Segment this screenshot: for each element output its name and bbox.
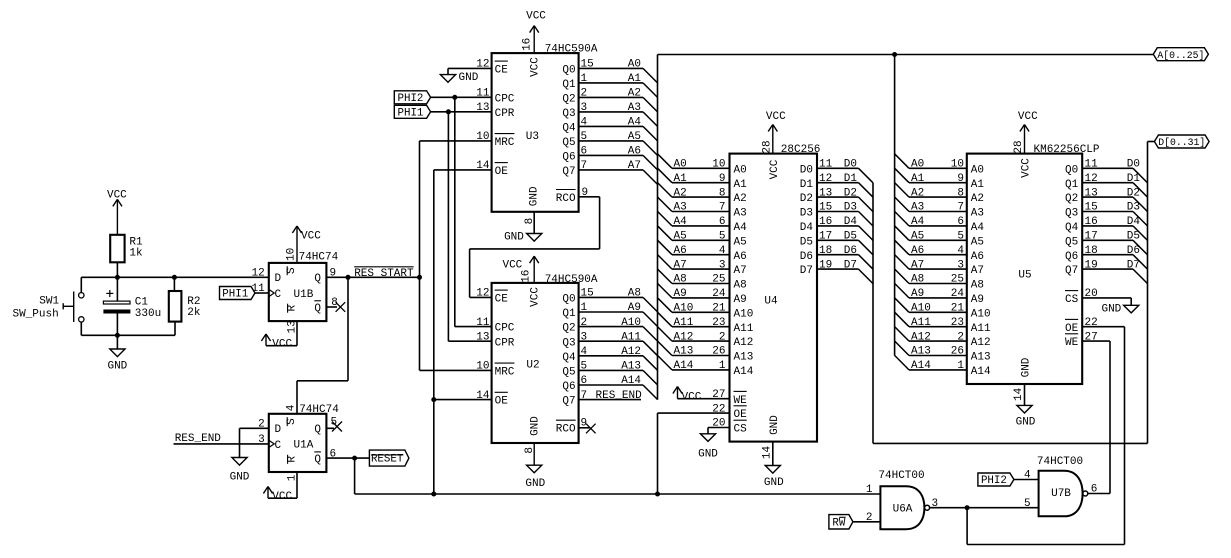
svg-text:Q4: Q4 bbox=[1065, 222, 1079, 234]
svg-text:A9: A9 bbox=[628, 302, 641, 314]
svg-text:A2: A2 bbox=[674, 187, 687, 199]
svg-text:17: 17 bbox=[1085, 231, 1098, 243]
svg-text:A7: A7 bbox=[734, 265, 747, 277]
svg-text:Q2: Q2 bbox=[1065, 193, 1078, 205]
svg-text:17: 17 bbox=[819, 231, 832, 243]
svg-text:A2: A2 bbox=[628, 88, 641, 100]
svg-text:16: 16 bbox=[521, 270, 533, 283]
svg-text:11: 11 bbox=[476, 88, 490, 100]
svg-text:4: 4 bbox=[1024, 470, 1031, 482]
svg-text:GND: GND bbox=[698, 449, 718, 461]
svg-text:A8: A8 bbox=[911, 274, 924, 286]
svg-text:Q5: Q5 bbox=[562, 137, 575, 149]
svg-text:VCC: VCC bbox=[502, 260, 522, 272]
svg-text:U3: U3 bbox=[526, 131, 539, 143]
svg-text:2: 2 bbox=[719, 331, 726, 343]
svg-text:A9: A9 bbox=[971, 294, 984, 306]
svg-text:U4: U4 bbox=[764, 295, 778, 307]
svg-text:GND: GND bbox=[230, 471, 250, 483]
svg-text:RW: RW bbox=[832, 517, 845, 529]
svg-text:A8: A8 bbox=[734, 280, 747, 292]
svg-text:GND: GND bbox=[525, 478, 545, 490]
svg-text:4: 4 bbox=[957, 245, 964, 257]
svg-text:A3: A3 bbox=[734, 208, 747, 220]
svg-text:A3: A3 bbox=[628, 102, 641, 114]
svg-text:D0: D0 bbox=[844, 159, 857, 171]
svg-text:VCC: VCC bbox=[530, 57, 542, 77]
svg-text:27: 27 bbox=[712, 389, 725, 401]
svg-text:11: 11 bbox=[1085, 159, 1099, 171]
svg-text:26: 26 bbox=[712, 346, 725, 358]
svg-text:6: 6 bbox=[581, 375, 588, 387]
svg-text:A12: A12 bbox=[674, 331, 694, 343]
svg-text:10: 10 bbox=[286, 248, 298, 261]
svg-text:A13: A13 bbox=[971, 352, 991, 364]
svg-text:D0: D0 bbox=[1127, 159, 1140, 171]
svg-text:A5: A5 bbox=[971, 236, 984, 248]
svg-text:4: 4 bbox=[581, 117, 588, 129]
svg-text:10: 10 bbox=[951, 159, 964, 171]
svg-text:13: 13 bbox=[1085, 187, 1098, 199]
svg-text:7: 7 bbox=[719, 202, 726, 214]
svg-text:9: 9 bbox=[582, 187, 589, 199]
svg-text:RCO: RCO bbox=[556, 193, 576, 205]
svg-text:A14: A14 bbox=[971, 366, 991, 378]
svg-text:9: 9 bbox=[330, 268, 337, 280]
svg-text:13: 13 bbox=[476, 331, 489, 343]
svg-text:A9: A9 bbox=[911, 288, 924, 300]
svg-text:RES_START: RES_START bbox=[354, 268, 414, 280]
svg-text:RES_END: RES_END bbox=[175, 433, 222, 445]
svg-text:19: 19 bbox=[819, 259, 832, 271]
svg-text:8: 8 bbox=[957, 187, 964, 199]
svg-text:CPR: CPR bbox=[495, 108, 515, 120]
svg-text:A4: A4 bbox=[674, 216, 688, 228]
svg-text:GND: GND bbox=[1016, 417, 1036, 429]
svg-text:A3: A3 bbox=[911, 202, 924, 214]
svg-text:28C256: 28C256 bbox=[781, 144, 821, 156]
svg-text:C: C bbox=[275, 289, 282, 301]
svg-text:A14: A14 bbox=[674, 360, 694, 372]
svg-text:10: 10 bbox=[476, 131, 489, 143]
svg-text:20: 20 bbox=[712, 418, 725, 430]
svg-text:A11: A11 bbox=[674, 317, 694, 329]
svg-text:Q0: Q0 bbox=[1065, 164, 1078, 176]
svg-text:A4: A4 bbox=[734, 222, 748, 234]
svg-text:74HC74: 74HC74 bbox=[299, 252, 339, 264]
svg-text:1: 1 bbox=[957, 360, 964, 372]
svg-text:CS: CS bbox=[1065, 294, 1079, 306]
svg-text:D4: D4 bbox=[844, 216, 858, 228]
svg-text:C: C bbox=[275, 440, 282, 452]
svg-text:18: 18 bbox=[1085, 245, 1098, 257]
svg-text:A14: A14 bbox=[911, 360, 931, 372]
svg-text:10: 10 bbox=[712, 159, 725, 171]
svg-text:D5: D5 bbox=[844, 231, 857, 243]
svg-text:2: 2 bbox=[957, 331, 964, 343]
svg-text:VCC: VCC bbox=[272, 338, 292, 350]
svg-text:PHI2: PHI2 bbox=[397, 93, 423, 105]
svg-text:A14: A14 bbox=[734, 366, 754, 378]
svg-text:2: 2 bbox=[581, 88, 588, 100]
svg-text:D7: D7 bbox=[1127, 259, 1140, 271]
svg-text:D: D bbox=[275, 273, 282, 285]
svg-text:2: 2 bbox=[866, 512, 873, 524]
svg-text:23: 23 bbox=[712, 317, 725, 329]
svg-text:U7B: U7B bbox=[1051, 488, 1071, 500]
svg-text:19: 19 bbox=[1085, 259, 1098, 271]
svg-text:15: 15 bbox=[1085, 202, 1098, 214]
svg-text:D5: D5 bbox=[800, 236, 813, 248]
svg-text:RES_END: RES_END bbox=[596, 390, 643, 402]
svg-text:12: 12 bbox=[476, 288, 489, 300]
svg-text:330u: 330u bbox=[135, 308, 161, 320]
svg-text:A4: A4 bbox=[628, 117, 642, 129]
svg-text:GND: GND bbox=[1101, 303, 1121, 315]
svg-text:SW1: SW1 bbox=[39, 296, 59, 308]
svg-text:VCC: VCC bbox=[1018, 111, 1038, 123]
svg-text:A1: A1 bbox=[628, 73, 642, 85]
svg-text:A5: A5 bbox=[628, 131, 641, 143]
svg-text:GND: GND bbox=[1021, 357, 1033, 377]
svg-text:3: 3 bbox=[581, 331, 588, 343]
svg-text:D6: D6 bbox=[800, 251, 813, 263]
svg-text:VCC: VCC bbox=[682, 391, 702, 403]
svg-text:21: 21 bbox=[951, 303, 965, 315]
svg-text:14: 14 bbox=[476, 390, 490, 402]
svg-text:1: 1 bbox=[719, 360, 726, 372]
svg-text:Q: Q bbox=[314, 273, 321, 285]
svg-text:D1: D1 bbox=[844, 173, 858, 185]
svg-text:A7: A7 bbox=[911, 259, 924, 271]
svg-text:1: 1 bbox=[581, 73, 588, 85]
svg-text:PHI1: PHI1 bbox=[397, 107, 423, 119]
svg-text:13: 13 bbox=[476, 102, 489, 114]
svg-text:A8: A8 bbox=[674, 274, 687, 286]
svg-text:3: 3 bbox=[932, 498, 939, 510]
svg-text:16: 16 bbox=[819, 216, 832, 228]
svg-text:D3: D3 bbox=[844, 202, 857, 214]
svg-text:11: 11 bbox=[819, 159, 833, 171]
svg-text:3: 3 bbox=[957, 259, 964, 271]
svg-text:MRC: MRC bbox=[495, 137, 515, 149]
svg-text:15: 15 bbox=[819, 202, 832, 214]
svg-text:22: 22 bbox=[712, 403, 725, 415]
svg-text:Q0: Q0 bbox=[562, 294, 575, 306]
svg-text:VCC: VCC bbox=[526, 10, 546, 22]
svg-text:10: 10 bbox=[476, 361, 489, 373]
svg-text:A8: A8 bbox=[628, 288, 641, 300]
svg-text:VCC: VCC bbox=[272, 491, 292, 503]
svg-text:Q: Q bbox=[314, 424, 321, 436]
svg-text:20: 20 bbox=[1085, 288, 1098, 300]
svg-text:A6: A6 bbox=[971, 251, 984, 263]
svg-text:A8: A8 bbox=[971, 280, 984, 292]
svg-text:GND: GND bbox=[459, 72, 479, 84]
svg-text:Q5: Q5 bbox=[1065, 236, 1078, 248]
svg-text:7: 7 bbox=[957, 202, 964, 214]
svg-text:8: 8 bbox=[524, 218, 536, 225]
svg-text:VCC: VCC bbox=[769, 159, 781, 179]
svg-text:D2: D2 bbox=[844, 187, 857, 199]
svg-text:6: 6 bbox=[581, 146, 588, 158]
svg-text:RCO: RCO bbox=[556, 424, 576, 436]
svg-text:CPC: CPC bbox=[495, 323, 515, 335]
svg-text:A11: A11 bbox=[734, 323, 754, 335]
svg-text:D4: D4 bbox=[1127, 216, 1141, 228]
svg-text:1: 1 bbox=[866, 484, 873, 496]
svg-text:13: 13 bbox=[287, 320, 299, 333]
svg-text:D6: D6 bbox=[1127, 245, 1140, 257]
svg-text:A6: A6 bbox=[628, 146, 641, 158]
svg-text:28: 28 bbox=[762, 140, 774, 153]
svg-text:A0: A0 bbox=[911, 159, 924, 171]
svg-text:VCC: VCC bbox=[1021, 158, 1033, 178]
svg-text:3: 3 bbox=[581, 102, 588, 114]
svg-text:D1: D1 bbox=[800, 179, 814, 191]
svg-text:2k: 2k bbox=[187, 307, 201, 319]
svg-text:A2: A2 bbox=[911, 187, 924, 199]
svg-text:7: 7 bbox=[581, 390, 588, 402]
svg-text:A13: A13 bbox=[734, 352, 754, 364]
svg-text:A6: A6 bbox=[911, 245, 924, 257]
svg-text:A0: A0 bbox=[674, 159, 687, 171]
svg-text:Q6: Q6 bbox=[562, 152, 575, 164]
svg-text:74HC590A: 74HC590A bbox=[545, 274, 598, 286]
svg-text:A9: A9 bbox=[734, 294, 747, 306]
svg-text:U5: U5 bbox=[1018, 270, 1031, 282]
svg-text:Q0: Q0 bbox=[562, 65, 575, 77]
svg-text:WE: WE bbox=[734, 395, 748, 407]
svg-text:A13: A13 bbox=[674, 346, 694, 358]
svg-text:OE: OE bbox=[495, 166, 509, 178]
svg-text:D4: D4 bbox=[800, 222, 814, 234]
svg-text:7: 7 bbox=[581, 160, 588, 172]
svg-text:12: 12 bbox=[251, 268, 264, 280]
svg-text:VCC: VCC bbox=[530, 287, 542, 307]
svg-text:14: 14 bbox=[476, 160, 490, 172]
svg-text:5: 5 bbox=[1024, 498, 1031, 510]
svg-text:16: 16 bbox=[522, 38, 534, 51]
svg-text:GND: GND bbox=[504, 231, 524, 243]
svg-text:WE: WE bbox=[1065, 337, 1079, 349]
svg-text:27: 27 bbox=[1085, 331, 1098, 343]
svg-text:A10: A10 bbox=[911, 303, 931, 315]
svg-text:4: 4 bbox=[719, 245, 726, 257]
svg-text:OE: OE bbox=[495, 396, 509, 408]
svg-text:15: 15 bbox=[581, 59, 594, 71]
svg-text:GND: GND bbox=[107, 360, 127, 372]
svg-text:28: 28 bbox=[1013, 140, 1025, 153]
svg-text:A6: A6 bbox=[734, 251, 747, 263]
svg-text:Q7: Q7 bbox=[1065, 265, 1078, 277]
svg-text:Q5: Q5 bbox=[562, 367, 575, 379]
svg-text:PHI2: PHI2 bbox=[981, 475, 1007, 487]
svg-text:A6: A6 bbox=[674, 245, 687, 257]
svg-text:2: 2 bbox=[581, 317, 588, 329]
svg-text:25: 25 bbox=[951, 274, 964, 286]
svg-text:22: 22 bbox=[1085, 317, 1098, 329]
svg-text:U1B: U1B bbox=[294, 289, 314, 301]
svg-text:6: 6 bbox=[330, 448, 337, 460]
svg-text:D[0..31]: D[0..31] bbox=[1158, 137, 1205, 148]
svg-text:4: 4 bbox=[285, 404, 297, 411]
svg-text:A1: A1 bbox=[734, 179, 748, 191]
svg-text:PHI1: PHI1 bbox=[222, 289, 248, 301]
svg-text:D5: D5 bbox=[1127, 231, 1140, 243]
svg-text:A0: A0 bbox=[971, 164, 984, 176]
svg-text:A3: A3 bbox=[971, 208, 984, 220]
svg-text:1: 1 bbox=[287, 474, 299, 481]
svg-text:SW_Push: SW_Push bbox=[12, 309, 58, 321]
svg-text:D1: D1 bbox=[1127, 173, 1141, 185]
svg-text:D7: D7 bbox=[800, 265, 813, 277]
svg-text:D0: D0 bbox=[800, 164, 813, 176]
svg-text:3: 3 bbox=[258, 434, 265, 446]
svg-text:4: 4 bbox=[581, 346, 588, 358]
svg-text:D2: D2 bbox=[800, 193, 813, 205]
svg-text:A2: A2 bbox=[971, 193, 984, 205]
svg-text:8: 8 bbox=[524, 447, 536, 454]
svg-text:Q4: Q4 bbox=[562, 352, 576, 364]
svg-text:A9: A9 bbox=[674, 288, 687, 300]
svg-text:A5: A5 bbox=[911, 231, 924, 243]
svg-text:Q: Q bbox=[314, 303, 321, 315]
svg-text:24: 24 bbox=[951, 288, 965, 300]
svg-text:Q2: Q2 bbox=[562, 94, 575, 106]
svg-text:RESET: RESET bbox=[371, 454, 404, 466]
svg-text:A12: A12 bbox=[971, 337, 991, 349]
svg-text:D7: D7 bbox=[844, 259, 857, 271]
svg-text:CPR: CPR bbox=[495, 337, 515, 349]
svg-text:12: 12 bbox=[476, 59, 489, 71]
svg-text:GND: GND bbox=[529, 186, 541, 206]
svg-text:A10: A10 bbox=[734, 308, 754, 320]
svg-text:3: 3 bbox=[719, 259, 726, 271]
svg-text:1: 1 bbox=[581, 302, 588, 314]
svg-text:A3: A3 bbox=[674, 202, 687, 214]
svg-text:5: 5 bbox=[581, 361, 588, 373]
svg-text:24: 24 bbox=[712, 288, 726, 300]
svg-text:U6A: U6A bbox=[893, 504, 913, 516]
svg-text:74HCT00: 74HCT00 bbox=[878, 470, 924, 482]
svg-text:GND: GND bbox=[764, 477, 784, 489]
svg-text:VCC: VCC bbox=[107, 190, 127, 202]
svg-text:Q6: Q6 bbox=[1065, 251, 1078, 263]
svg-text:5: 5 bbox=[581, 131, 588, 143]
svg-text:MRC: MRC bbox=[495, 367, 515, 379]
svg-text:A10: A10 bbox=[674, 303, 694, 315]
svg-text:Q1: Q1 bbox=[1065, 179, 1079, 191]
svg-text:5: 5 bbox=[719, 231, 726, 243]
svg-text:6: 6 bbox=[957, 216, 964, 228]
svg-text:Q3: Q3 bbox=[562, 108, 575, 120]
svg-text:A2: A2 bbox=[734, 193, 747, 205]
svg-text:A0: A0 bbox=[734, 164, 747, 176]
svg-text:A10: A10 bbox=[621, 317, 641, 329]
svg-text:9: 9 bbox=[957, 173, 964, 185]
svg-text:A11: A11 bbox=[971, 323, 991, 335]
svg-text:25: 25 bbox=[712, 274, 725, 286]
svg-text:GND: GND bbox=[530, 416, 542, 436]
svg-text:14: 14 bbox=[1013, 387, 1025, 401]
svg-text:6: 6 bbox=[1091, 484, 1098, 496]
svg-text:Q3: Q3 bbox=[562, 337, 575, 349]
svg-text:2: 2 bbox=[258, 419, 265, 431]
svg-text:12: 12 bbox=[1085, 173, 1098, 185]
svg-text:A4: A4 bbox=[911, 216, 925, 228]
svg-text:21: 21 bbox=[712, 303, 726, 315]
svg-text:CE: CE bbox=[495, 294, 509, 306]
svg-text:Q7: Q7 bbox=[562, 396, 575, 408]
svg-text:D3: D3 bbox=[1127, 202, 1140, 214]
svg-text:9: 9 bbox=[719, 173, 726, 185]
svg-text:D2: D2 bbox=[1127, 187, 1140, 199]
svg-text:Q4: Q4 bbox=[562, 123, 576, 135]
svg-text:12: 12 bbox=[819, 173, 832, 185]
svg-text:A14: A14 bbox=[621, 375, 641, 387]
svg-text:A[0..25]: A[0..25] bbox=[1157, 50, 1204, 61]
svg-text:R2: R2 bbox=[187, 296, 200, 308]
svg-text:CS: CS bbox=[734, 424, 748, 436]
svg-text:CPC: CPC bbox=[495, 94, 515, 106]
svg-text:Q1: Q1 bbox=[562, 79, 576, 91]
svg-text:13: 13 bbox=[819, 187, 832, 199]
svg-text:Q1: Q1 bbox=[562, 308, 576, 320]
svg-text:8: 8 bbox=[719, 187, 726, 199]
svg-text:23: 23 bbox=[951, 317, 964, 329]
svg-text:VCC: VCC bbox=[766, 111, 786, 123]
svg-text:A13: A13 bbox=[621, 361, 641, 373]
svg-text:A11: A11 bbox=[621, 331, 641, 343]
svg-text:D6: D6 bbox=[844, 245, 857, 257]
svg-text:OE: OE bbox=[1065, 323, 1079, 335]
svg-text:A7: A7 bbox=[674, 259, 687, 271]
svg-text:74HC590A: 74HC590A bbox=[545, 43, 598, 55]
svg-text:14: 14 bbox=[761, 446, 773, 460]
svg-text:18: 18 bbox=[819, 245, 832, 257]
svg-text:1k: 1k bbox=[129, 248, 143, 260]
svg-text:Q6: Q6 bbox=[562, 381, 575, 393]
svg-text:Q3: Q3 bbox=[1065, 208, 1078, 220]
svg-text:A1: A1 bbox=[911, 173, 925, 185]
svg-text:11: 11 bbox=[476, 317, 490, 329]
svg-text:6: 6 bbox=[719, 216, 726, 228]
svg-text:A12: A12 bbox=[621, 346, 641, 358]
svg-text:A1: A1 bbox=[971, 179, 985, 191]
svg-text:A7: A7 bbox=[628, 160, 641, 172]
svg-text:5: 5 bbox=[957, 231, 964, 243]
svg-text:U1A: U1A bbox=[294, 440, 314, 452]
svg-text:C1: C1 bbox=[135, 297, 149, 309]
svg-text:A5: A5 bbox=[734, 236, 747, 248]
svg-text:A4: A4 bbox=[971, 222, 985, 234]
svg-text:OE: OE bbox=[734, 409, 748, 421]
svg-text:15: 15 bbox=[581, 288, 594, 300]
svg-text:Q: Q bbox=[314, 454, 321, 466]
svg-text:Q7: Q7 bbox=[562, 166, 575, 178]
svg-text:VCC: VCC bbox=[301, 231, 321, 243]
svg-text:A7: A7 bbox=[971, 265, 984, 277]
svg-text:GND: GND bbox=[769, 415, 781, 435]
svg-text:A1: A1 bbox=[674, 173, 688, 185]
svg-text:16: 16 bbox=[1085, 216, 1098, 228]
svg-text:A5: A5 bbox=[674, 231, 687, 243]
svg-text:26: 26 bbox=[951, 346, 964, 358]
svg-text:A0: A0 bbox=[628, 59, 641, 71]
svg-text:74HC74: 74HC74 bbox=[299, 404, 339, 416]
svg-text:A12: A12 bbox=[734, 337, 754, 349]
